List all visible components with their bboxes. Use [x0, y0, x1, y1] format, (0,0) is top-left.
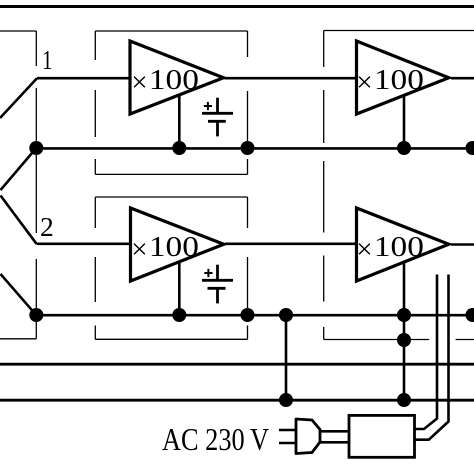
wire: bus 2 drop at x=404	[403, 315, 406, 400]
svg-text:100: 100	[149, 64, 199, 96]
battery B2	[202, 265, 233, 304]
wire: amp 3 output to receiver	[225, 243, 358, 246]
power supply lead 1	[415, 275, 438, 430]
wire: channel 2 top wire to amp 3	[37, 243, 133, 246]
wire: amp 1 output to receiver	[225, 77, 359, 80]
wire: channel 2 input diagonal	[1, 196, 37, 244]
battery B1	[202, 98, 233, 137]
svg-text:100: 100	[374, 231, 424, 263]
battery B2 plus sign	[204, 269, 212, 277]
svg-text:×: ×	[131, 233, 147, 265]
amp 2 ground wire	[403, 93, 406, 148]
wire: amp 4 output	[451, 243, 474, 246]
mains plug body	[296, 419, 320, 454]
wire: channel 1 top wire to amp 1	[37, 77, 132, 80]
ground bus 2	[36, 314, 474, 317]
junction nodes bus 1	[29, 141, 474, 155]
junction nodes on neutral line	[279, 393, 411, 407]
top boundary line	[0, 5, 474, 8]
shielded source box (thin, cut at left edge)	[0, 31, 36, 339]
battery B1 plus sign	[204, 102, 212, 110]
shielded receiver box (right, cut at right edge)	[324, 31, 474, 340]
svg-text:100: 100	[149, 231, 199, 263]
op-amp A4	[357, 208, 449, 281]
mains plug prong 1	[279, 429, 296, 432]
wire: channel 1 input diagonal	[0, 78, 37, 118]
ground bus 1	[36, 147, 474, 150]
mains cable	[320, 430, 349, 433]
junction node feedthrough	[397, 333, 411, 347]
svg-text:AC 230 V: AC 230 V	[162, 421, 269, 457]
amp 3 ground wire	[178, 260, 181, 315]
svg-text:×: ×	[356, 233, 372, 265]
wire: bus 2 drop at x=286	[285, 315, 288, 400]
mains neutral line	[0, 399, 474, 402]
power supply unit box	[349, 415, 415, 457]
svg-text:1: 1	[42, 44, 53, 75]
svg-text:×: ×	[131, 67, 147, 99]
svg-text:2: 2	[40, 211, 54, 242]
wire: channel 2 return diagonal from node	[1, 274, 37, 315]
mains plug prong 2	[279, 442, 296, 445]
svg-text:×: ×	[356, 67, 372, 99]
mains earth line	[0, 363, 474, 366]
amp 1 ground wire	[178, 93, 181, 148]
op-amp A3	[131, 208, 224, 281]
junction nodes bus 2	[29, 308, 474, 322]
amp 4 ground wire	[403, 260, 406, 315]
wire: channel 1 return diagonal from node	[1, 148, 37, 190]
wire: amp 2 output	[451, 77, 474, 80]
op-amp A1	[130, 41, 224, 114]
shield box of amp 1	[95, 31, 247, 174]
power supply lead 2	[415, 275, 449, 440]
svg-text:100: 100	[374, 64, 424, 96]
op-amp A2	[357, 41, 449, 114]
shield box of amp 3	[95, 197, 247, 339]
